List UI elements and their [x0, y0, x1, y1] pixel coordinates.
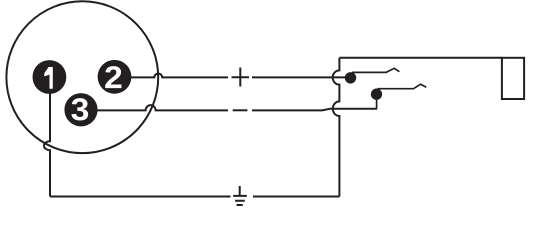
earth ground symbol: [233, 186, 247, 205]
XLR connector body outline: [6, 1, 158, 153]
wire: pin 1 down to shield (hop over body outline): [44, 94, 50, 197]
pin 3: [64, 93, 97, 126]
jack body rectangle: [502, 58, 524, 99]
jack sleeve rail (top): [339, 57, 502, 59]
polarity mark minus: [233, 109, 248, 111]
ring switch contact lever: [378, 84, 427, 89]
ring terminal riser: [376, 96, 378, 109]
tip junction dot: [345, 72, 356, 83]
jack housing left edge with two solder lugs: [333, 58, 340, 197]
pin 2: [98, 60, 132, 94]
ring junction dot: [371, 89, 382, 100]
wire: pin 3 (cold) right segment to ring terminal: [252, 109, 377, 111]
polarity mark plus: [232, 68, 250, 87]
wire: pin 3 (cold) left segment with hop over body outline: [98, 105, 229, 110]
pin 1: [33, 60, 67, 94]
shield bottom wire, right segment: [253, 196, 340, 198]
shield bottom wire, left segment: [50, 196, 231, 198]
wire: pin 2 (hot) right segment to tip dot: [252, 76, 350, 78]
tip switch contact lever: [352, 68, 399, 72]
wire: pin 2 (hot) left segment with hop over body outline: [131, 73, 228, 77]
